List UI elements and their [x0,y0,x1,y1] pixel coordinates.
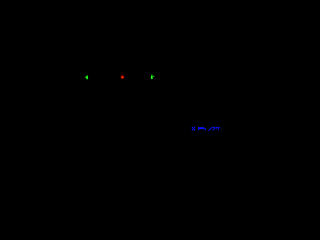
glyph cluster 2 [216,127,218,128]
slash [211,127,212,128]
green blob left [85,75,88,79]
glyph cluster 3 [217,127,220,128]
red blob center [120,73,124,79]
blue annotation text bottom-right [192,127,220,131]
glyph cluster 1 [213,127,215,128]
bold dash word [198,127,199,130]
x glyph [192,127,193,128]
green blob right [151,75,155,80]
